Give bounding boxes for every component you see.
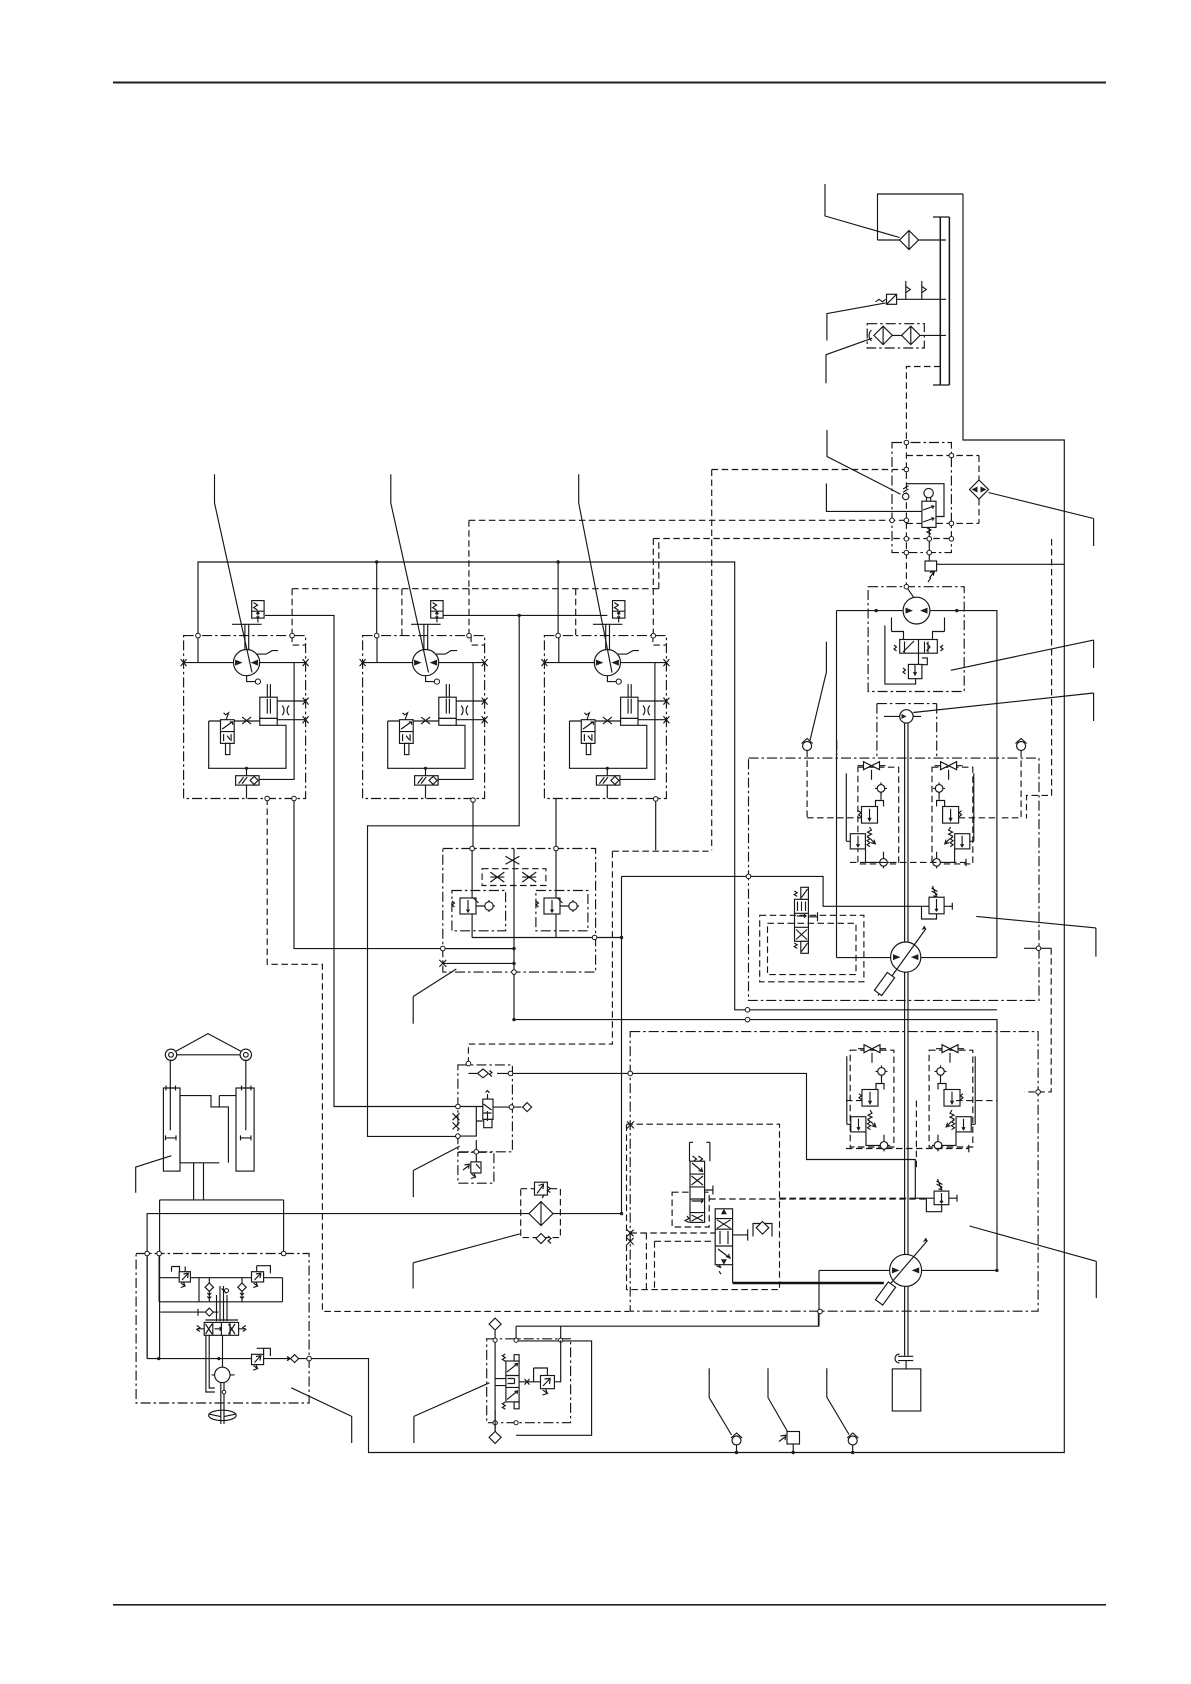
wire: bottom valve return loop xyxy=(516,1341,592,1435)
bottom port diamond xyxy=(494,1410,496,1431)
return filter F2 xyxy=(970,480,989,499)
leader: filter F1 xyxy=(825,184,900,238)
servo piston xyxy=(874,972,894,995)
dashed top link xyxy=(712,469,907,471)
pump regulator valve xyxy=(900,640,938,654)
pilot manifold box xyxy=(892,443,951,553)
control valve dashed box xyxy=(627,1124,780,1289)
inlet verticals xyxy=(472,849,556,938)
wire: pump suction line xyxy=(837,611,997,958)
node N33 at 511.4,1107.1 xyxy=(509,1105,514,1110)
spool MV side port xyxy=(705,1186,713,1195)
node N25 at 514,972.1 xyxy=(512,970,517,975)
blocked ports X xyxy=(627,1230,634,1245)
node N6 at 951.4,538.8 xyxy=(949,537,954,542)
solenoid unloading S1 xyxy=(928,527,930,561)
leader: filler xyxy=(826,338,872,383)
node N10 at 929.3,552.6 xyxy=(927,550,932,555)
dashed sub box xyxy=(906,456,979,524)
drive shaft double line upper xyxy=(905,723,908,942)
leader: travel motor 3 xyxy=(579,474,612,672)
relief group dashed enclosures 2 xyxy=(850,1050,894,1147)
node N41 at 1038.1,1091.9 xyxy=(1036,1090,1041,1095)
blade cylinder right xyxy=(236,1088,254,1171)
spool HV body xyxy=(715,1209,732,1265)
junction dot J51 at 793.2,1452.5 xyxy=(792,1451,795,1454)
pilot relief L xyxy=(172,1267,186,1272)
dashed pilot header upper xyxy=(469,519,907,521)
steering shaft xyxy=(221,1383,224,1425)
spool HV side port xyxy=(733,1229,748,1240)
wire: relief pair dashed links xyxy=(807,818,998,863)
top rule xyxy=(113,82,1106,84)
dashed pilot bus over motors xyxy=(292,588,659,590)
swing motor M4 xyxy=(891,942,921,972)
junction dot J57 at 514,1019.6 xyxy=(512,1018,515,1021)
node N31 at 457.9,1136.1 xyxy=(456,1134,461,1139)
accumulator A1 xyxy=(892,1369,921,1411)
dashed pilot net xyxy=(630,1199,929,1290)
bypass valve xyxy=(535,1182,548,1195)
orifice with strainer xyxy=(903,493,909,499)
dashed branch to crossover right xyxy=(468,851,708,1063)
charge relief R2 xyxy=(934,1191,949,1205)
inlet check xyxy=(160,1311,205,1313)
swing/travel block 2 enclosure xyxy=(630,1032,1038,1312)
wire: pump suction down leg xyxy=(836,611,838,958)
ports W xyxy=(458,1107,483,1137)
node N18 at 655.7,798.9 xyxy=(653,797,658,802)
junction dot J52 at 852.7,1452.5 xyxy=(851,1451,854,1454)
node N14 at 376.7,635.6 xyxy=(374,633,379,638)
servo feedback thick link xyxy=(733,1282,884,1285)
drive shaft double line lower xyxy=(905,1287,908,1356)
blade body linkage xyxy=(180,1096,236,1163)
crossover relief R xyxy=(536,891,588,931)
wire: motor2 through line xyxy=(819,1270,997,1326)
node N36 at 820,1311.5 xyxy=(818,1309,823,1314)
air breather B1 xyxy=(887,294,897,304)
pump assembly box xyxy=(868,587,964,692)
reservoir T1 xyxy=(940,217,949,385)
node N4 at 951.4,455.5 xyxy=(949,453,954,458)
wire: crossover bottom rail xyxy=(472,937,621,939)
drain check C1 xyxy=(732,1436,741,1445)
triangle linkage xyxy=(176,1034,242,1055)
check with spring xyxy=(468,1072,510,1074)
leader: cooler xyxy=(413,1234,520,1289)
node N21 at 473,800 xyxy=(471,798,476,803)
relief pair 1R xyxy=(931,762,974,869)
variable arrow xyxy=(878,929,926,996)
wire: solenoid pilot line units 2-3 xyxy=(442,614,607,616)
junction dot J47 at 519.2,615.4 xyxy=(518,614,521,617)
dashed long drop center xyxy=(711,470,713,851)
filler strainer box xyxy=(867,324,924,348)
dashed header mid xyxy=(653,538,951,540)
wire: motor3 drain drop xyxy=(655,799,657,850)
solenoid valve W xyxy=(483,1099,493,1119)
leader: valve V xyxy=(414,1383,490,1443)
wire: return riser to cooler xyxy=(147,876,621,1358)
leader: valve W xyxy=(413,1146,459,1197)
plugged check port xyxy=(753,1224,772,1237)
wire: crossover box blocked line xyxy=(443,949,514,964)
node N29 at 468.4,1063.6 xyxy=(466,1061,471,1066)
node N22 at 472.1,848.5 xyxy=(470,846,475,851)
pilot spool valve xyxy=(206,1319,239,1321)
junction dot J53 at 996.9,1270.4 xyxy=(995,1269,998,1272)
valve V body xyxy=(506,1361,519,1402)
leader: pilot box xyxy=(291,1388,351,1443)
leader: block2 xyxy=(970,1226,1097,1298)
cooler check xyxy=(536,1234,546,1244)
variable arrow xyxy=(876,1241,928,1301)
node N30 at 457.9,1106.5 xyxy=(456,1104,461,1109)
node N44 at 1038.5,948.3 xyxy=(1036,946,1041,951)
travel motor M5 xyxy=(890,1254,922,1286)
wire: pilot supply stub to reducing valve xyxy=(826,484,922,512)
throttle 2 xyxy=(522,872,536,882)
dashed drop to motor3 xyxy=(652,539,654,636)
crossover relief L box xyxy=(452,891,506,931)
crossover relief box xyxy=(443,849,596,973)
wire: relief pair dashed links 2 xyxy=(846,1101,997,1170)
junction dot J54 at 621.5,937.5 xyxy=(620,936,623,939)
node N7 at 906.4,538.8 xyxy=(904,537,909,542)
node N20 at 294,798.5 xyxy=(292,796,297,801)
makeup check valve upper-right xyxy=(1017,742,1026,751)
dashed drop to motor2 xyxy=(468,589,470,636)
pump relief valve xyxy=(908,664,922,678)
node N27 at 747.5,1009.8 xyxy=(745,1008,750,1013)
junction dot J55 at 514,948.6 xyxy=(512,947,515,950)
dashed drop mid2 xyxy=(575,589,577,636)
node N26 at 594.6,937.5 xyxy=(592,935,597,940)
spool bundle xyxy=(217,1286,228,1321)
node N32 at 510.5,1073.4 xyxy=(508,1071,513,1076)
pilot port relief xyxy=(257,1348,271,1356)
wire: main supply bus to travel motors xyxy=(198,562,997,1010)
junction dot J46 at 558.1,562 xyxy=(556,560,559,563)
junction dot J50 at 736.5,1452.5 xyxy=(735,1451,738,1454)
pressure switch PS1 xyxy=(787,1432,800,1445)
inner frame xyxy=(147,1254,282,1359)
wire: tank top box to right frame xyxy=(309,194,1064,1453)
charge relief R1 xyxy=(929,897,944,914)
top port diamond xyxy=(489,1318,501,1330)
leader: travel motor 2 xyxy=(391,474,429,672)
node N19 at 267.2,798.5 xyxy=(265,796,270,801)
node N9 at 906.4,552.6 xyxy=(904,550,909,555)
wire: pilot sense thin line xyxy=(937,563,1065,565)
node N24 at 442.8,948.6 xyxy=(441,946,446,951)
node N1 at 906.4,442.5 xyxy=(904,440,909,445)
node N15 at 469,635.6 xyxy=(467,633,472,638)
relief W xyxy=(458,1152,494,1183)
bottom rule xyxy=(113,1604,1106,1606)
solenoid valve box W xyxy=(458,1065,513,1152)
wire: riser branch to brake valve xyxy=(622,876,930,906)
node N43 at 748.5,876.4 xyxy=(746,874,751,879)
pressure reducing valve PRV xyxy=(922,501,936,527)
leader: check C1 xyxy=(709,1368,731,1435)
leader: makeup check xyxy=(810,642,826,741)
brake shift valve B1 xyxy=(795,899,809,941)
wire: bottom valve to lower block xyxy=(516,1312,818,1327)
relief pair 1L xyxy=(846,762,889,869)
drain check C2 xyxy=(848,1436,857,1445)
dashed vertical branch left xyxy=(468,520,470,588)
junction dot J45 at 376.7,562 xyxy=(375,560,378,563)
pump coupling box xyxy=(837,704,937,759)
suction filter F1 xyxy=(900,231,919,250)
node N40 at 283.6,1253.5 xyxy=(281,1251,286,1256)
node N35 at 630.2,1073.4 xyxy=(628,1071,633,1076)
servo piston xyxy=(875,1282,895,1305)
wire: motor1 through line xyxy=(837,957,997,959)
wire: motor2 to crossover box xyxy=(472,799,474,849)
makeup check valve upper-left xyxy=(803,742,812,751)
dashed riser right end xyxy=(658,539,660,589)
node N39 at 159.1,1253.5 xyxy=(157,1251,162,1256)
relief pair 2R xyxy=(932,1045,975,1152)
blade yoke xyxy=(160,1163,284,1360)
node N37 at 309.1,1358.6 xyxy=(307,1356,312,1361)
dashed drop to motor1 xyxy=(291,589,293,636)
leader: pressure switch xyxy=(768,1368,788,1431)
port line xyxy=(147,1358,309,1360)
pilot control box xyxy=(136,1254,309,1404)
junction dot J58 at 621.5,1213.6 xyxy=(620,1212,623,1215)
node N28 at 747.5,1019.6 xyxy=(745,1017,750,1022)
shuttle check 2 xyxy=(241,1278,243,1283)
feedback loops xyxy=(206,1335,223,1392)
swing/travel block 1 enclosure xyxy=(749,758,1040,1000)
node N3 at 892,520.3 xyxy=(890,518,895,523)
relief pair 2L xyxy=(847,1045,890,1152)
leader: pump regulator xyxy=(951,640,1094,670)
steering gerotor xyxy=(215,1367,230,1382)
dashed link relief2 xyxy=(780,1197,916,1199)
travel motor unit 1 xyxy=(181,601,309,799)
travel motor unit 2 xyxy=(360,601,488,799)
travel motor unit 3 xyxy=(541,601,669,799)
wire: supply drop to motor unit 3 xyxy=(557,562,559,636)
leader: return filter xyxy=(989,493,1094,547)
main pump P1 xyxy=(903,597,930,624)
node N11 at 906.4,520.3 xyxy=(904,518,909,523)
node N5 at 951.4,523.4 xyxy=(949,521,954,526)
solenoid block V xyxy=(487,1339,571,1423)
sub dashed box xyxy=(672,1192,709,1227)
dashed right column upper xyxy=(1027,539,1052,819)
leader: orifice xyxy=(827,430,901,494)
dashed motor1 drain xyxy=(267,799,629,1312)
pump shaft from tank line xyxy=(906,587,914,598)
throttle 1 xyxy=(490,872,504,882)
wire: center pilot drop xyxy=(514,849,997,1271)
cooler core xyxy=(529,1202,553,1226)
blade cylinder left xyxy=(163,1088,180,1171)
crossover relief L xyxy=(460,898,476,914)
node N16 at 558.1,635.6 xyxy=(556,633,561,638)
drive shaft double line mid xyxy=(905,972,908,1254)
valve pilot dashed box xyxy=(760,915,864,982)
leader: block1 xyxy=(976,916,1096,956)
dashed right column lower xyxy=(1024,947,1051,949)
node N34 at 476.3,1151.8 xyxy=(474,1150,479,1155)
pilot relief R xyxy=(257,1266,271,1274)
wire: solenoid pilot line unit1 xyxy=(265,615,458,1106)
node N38 at 147.1,1253.5 xyxy=(145,1251,150,1256)
steering wheel xyxy=(209,1410,237,1420)
wire: motor3 to crossover box xyxy=(555,799,557,849)
wire: supply drop to motor unit 2 xyxy=(376,562,378,636)
spool MV pilot U xyxy=(690,1142,710,1162)
relief V xyxy=(534,1368,548,1382)
leader: gear pump xyxy=(913,693,1093,721)
outlet check xyxy=(291,1355,299,1363)
junction dot J49 at 956.8,610.6 xyxy=(955,609,958,612)
dashed tank line vertical xyxy=(906,367,940,587)
spool MV body xyxy=(690,1161,705,1222)
blade link pins xyxy=(165,1049,176,1060)
oil cooler box xyxy=(521,1189,561,1238)
orifice dashed box xyxy=(482,869,546,886)
node N12 at 198,635.6 xyxy=(196,633,201,638)
wire: valve box feed line xyxy=(511,1073,935,1198)
node N23 at 556,848.5 xyxy=(554,846,559,851)
dashed drop mid1 xyxy=(401,589,403,636)
blocked port X xyxy=(439,960,446,967)
relief group dashed enclosures xyxy=(858,767,899,864)
wire: pilot drop to solenoid valve W xyxy=(368,615,520,1136)
shuttle check 1 xyxy=(199,1278,209,1302)
node N8 at 929.3,538.8 xyxy=(927,537,932,542)
wire: motor1 line to crossover box xyxy=(294,799,514,949)
node N13 at 292.1,635.6 xyxy=(290,633,295,638)
node N2 at 906.4,469.5 xyxy=(904,467,909,472)
leader: breather xyxy=(827,303,886,341)
blocked port X at block2 left edge xyxy=(627,1121,634,1128)
node N42 at 906.4,586.7 xyxy=(904,584,909,589)
junction dot J56 at 514,963.4 xyxy=(512,962,515,965)
leader: crossover box xyxy=(413,969,456,1024)
leader: travel motor 1 xyxy=(215,474,253,672)
node N17 at 653.3,635.7 xyxy=(651,633,656,638)
leader: check C2 xyxy=(827,1368,849,1434)
filler strainer diamonds xyxy=(874,326,920,344)
leader: blade cylinders xyxy=(136,1156,172,1193)
gear pump P2 xyxy=(900,710,913,723)
accumulator coupling xyxy=(898,1356,913,1369)
closed center symbol xyxy=(505,856,519,864)
junction dot J48 at 876.2,610.6 xyxy=(875,609,878,612)
